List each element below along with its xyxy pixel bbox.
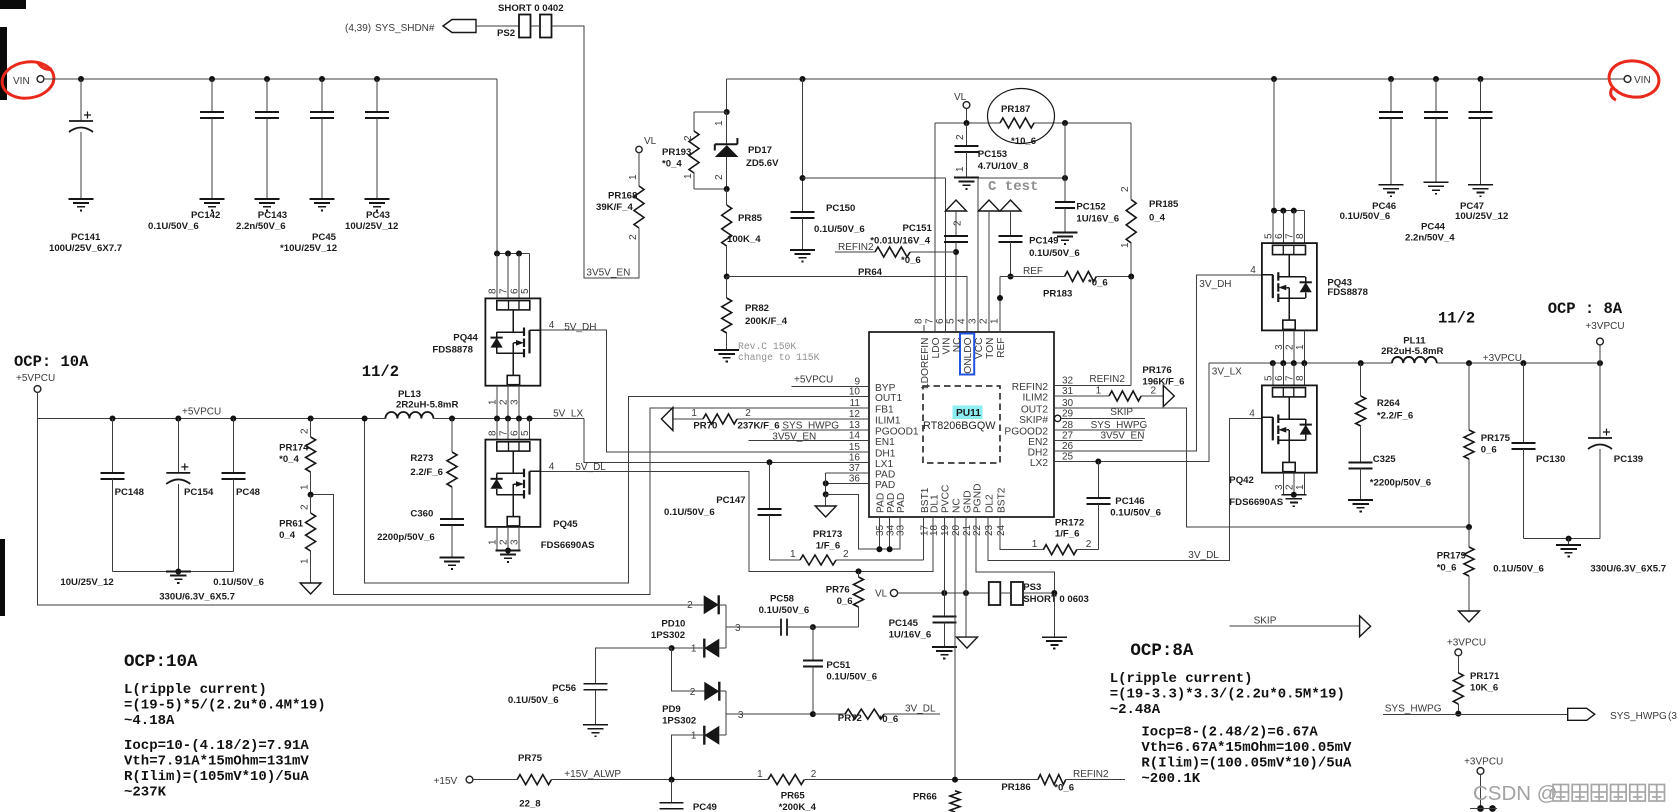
ic pin 1 REF (top) (999, 325, 1001, 332)
svg-text:NC: NC (952, 338, 963, 353)
svg-text:PAD: PAD (875, 469, 895, 480)
ground C325 (1348, 500, 1373, 511)
capacitor PC43 (374, 76, 380, 82)
diode PD9 lower (704, 726, 719, 745)
svg-text:7: 7 (925, 318, 936, 324)
svg-text:8: 8 (1295, 233, 1306, 239)
svg-text:PC151: PC151 (903, 223, 933, 234)
page border mark left upper (0, 27, 7, 100)
node R273 junction (449, 416, 455, 422)
svg-text:1: 1 (990, 318, 1001, 324)
svg-text:10U/25V_12: 10U/25V_12 (345, 221, 398, 232)
svg-text:PR64: PR64 (858, 267, 883, 278)
svg-text:+15V: +15V (434, 776, 458, 787)
capacitor PC45 (319, 76, 325, 82)
svg-text:1: 1 (691, 731, 697, 742)
wire PD10 to PD9 (672, 648, 705, 691)
capacitor PC56 (584, 684, 608, 690)
svg-text:1: 1 (790, 549, 796, 560)
svg-text:PGOOD1: PGOOD1 (875, 427, 919, 438)
svg-text:Iocp=8-(2.48/2)=6.67A: Iocp=8-(2.48/2)=6.67A (1141, 725, 1318, 741)
wire PQ43 bottom pins to 3V_LX (1282, 330, 1284, 363)
wire 5V_LX rail (433, 418, 584, 420)
svg-text:24: 24 (996, 524, 1007, 536)
svg-text:PC148: PC148 (115, 487, 145, 498)
svg-text:PC149: PC149 (1029, 236, 1058, 247)
svg-text:PR185: PR185 (1149, 199, 1179, 210)
svg-text:VIN: VIN (941, 338, 952, 355)
svg-text:ILIM1: ILIM1 (875, 416, 901, 427)
svg-text:0.1U/50V_6: 0.1U/50V_6 (1110, 508, 1161, 519)
resistor PR65 (768, 775, 804, 785)
ground PC143 (255, 199, 280, 210)
wire VCC row left segment (803, 177, 946, 179)
wire PQ42 bottom pins to ground (1282, 473, 1284, 495)
transistor PQ44 FDS8878 (485, 298, 540, 385)
node PD10 pin1 junction (669, 645, 675, 651)
svg-text:OCP: 10A: OCP: 10A (14, 353, 89, 371)
wire 3V_LX rail (1209, 362, 1392, 364)
svg-text:37: 37 (849, 463, 861, 474)
capacitor PC49 (671, 780, 673, 803)
svg-text:PC51: PC51 (826, 660, 851, 671)
svg-text:6: 6 (510, 430, 521, 436)
capacitor PC130 (1520, 360, 1526, 366)
svg-text:DH2: DH2 (1028, 448, 1049, 459)
svg-text:2: 2 (1284, 344, 1295, 350)
node caps bottom junction (175, 569, 181, 575)
node output ground junction (1566, 536, 1572, 542)
svg-text:PC48: PC48 (236, 487, 261, 498)
svg-text:2: 2 (690, 687, 696, 698)
svg-text:2: 2 (979, 318, 990, 324)
svg-text:100K_4: 100K_4 (727, 234, 761, 245)
svg-text:8: 8 (1295, 375, 1306, 381)
wire PD10 pin3 to PC58 (726, 626, 727, 628)
resistor PR185 (1126, 200, 1136, 243)
svg-text:3V_DL: 3V_DL (905, 704, 936, 715)
capacitor PC142 (209, 76, 215, 82)
svg-text:4.7U/10V_8: 4.7U/10V_8 (978, 161, 1029, 172)
ic PU11 RT8206BGQW body (869, 332, 1054, 517)
svg-text:1: 1 (488, 399, 499, 405)
resistor PR61 (310, 495, 312, 513)
wire PR173 row (770, 559, 801, 561)
svg-text:VIN: VIN (1634, 75, 1651, 86)
svg-text:OUT2: OUT2 (1021, 404, 1049, 415)
svg-text:0_4: 0_4 (1149, 213, 1166, 224)
svg-text:10: 10 (849, 387, 861, 398)
ground arrow PAD (825, 494, 827, 506)
ground PQ42 (1281, 495, 1306, 506)
wire VIN drop to PQ43 (1273, 79, 1275, 211)
svg-text:10U/25V_12: 10U/25V_12 (1455, 211, 1508, 222)
svg-text:VL: VL (644, 136, 657, 147)
ic pin 7 LDO (top) (934, 325, 936, 332)
wire DL2 pin23 to PQ42 gate (988, 418, 1263, 560)
wire PVCC pin19 vertical (943, 517, 945, 593)
wire PD9 cathode vertical (719, 690, 726, 692)
wire caps bottom bus (113, 571, 234, 573)
resistor PR176 (1109, 391, 1141, 401)
capacitor PC146 (1097, 462, 1099, 498)
svg-text:8: 8 (488, 430, 499, 436)
svg-text:REFIN2: REFIN2 (838, 242, 874, 253)
svg-text:14: 14 (849, 431, 861, 442)
capacitor PC151 (955, 211, 957, 236)
svg-text:3: 3 (510, 399, 521, 405)
svg-text:2: 2 (745, 408, 751, 419)
svg-text:EN1: EN1 (875, 437, 895, 448)
resistor PR172 (1043, 545, 1076, 555)
resistor PR193 (693, 112, 695, 131)
svg-text:PC43: PC43 (366, 210, 390, 221)
ic pin 3 VCC (top) (977, 325, 979, 332)
svg-text:+15V_ALWP: +15V_ALWP (564, 769, 621, 780)
wire PGOOD2 pin28 stub (1054, 429, 1145, 431)
svg-text:PR76: PR76 (826, 585, 850, 596)
svg-text:29: 29 (1062, 408, 1074, 419)
diode PD10 lower (704, 639, 719, 658)
svg-text:1: 1 (300, 558, 311, 564)
svg-text:7: 7 (1284, 233, 1295, 239)
svg-text:*0_6: *0_6 (1437, 563, 1457, 574)
svg-text:OCP:8A: OCP:8A (1130, 641, 1194, 661)
wire SYS_HWPG row (1383, 713, 1568, 715)
svg-text:VIN: VIN (13, 76, 30, 87)
svg-text:C325: C325 (1373, 454, 1397, 465)
wire PD9 pin3 row (726, 713, 813, 715)
watermark CSDN (1473, 782, 1558, 805)
svg-text:6: 6 (935, 318, 946, 324)
svg-text:0.1U/50V_6: 0.1U/50V_6 (664, 507, 715, 518)
capacitor PC148 (110, 416, 116, 422)
red highlight circle around left VIN (0, 59, 56, 102)
svg-text:1: 1 (1032, 539, 1038, 550)
wire +3VPCU bottom stub (1480, 774, 1482, 808)
ground arrow PR179 (1459, 611, 1480, 622)
node PVCC junction (941, 590, 947, 596)
svg-text:PS2: PS2 (497, 28, 515, 39)
svg-text:PQ42: PQ42 (1229, 475, 1254, 486)
svg-text:VCC: VCC (974, 338, 985, 360)
svg-text:25: 25 (1062, 452, 1074, 463)
svg-text:13: 13 (849, 420, 861, 431)
wire PQ43 top header (1274, 210, 1304, 212)
svg-text:PC147: PC147 (716, 495, 745, 506)
node PAD36 junction (823, 480, 829, 486)
node REF junction (1008, 274, 1014, 280)
svg-text:4: 4 (549, 320, 555, 331)
svg-text:0.1U/50V_6: 0.1U/50V_6 (759, 605, 810, 616)
svg-text:2: 2 (953, 220, 964, 226)
wire VL horizontal (935, 122, 1000, 124)
svg-text:PGND: PGND (972, 484, 983, 513)
svg-text:3: 3 (510, 539, 521, 545)
svg-text:18: 18 (929, 524, 940, 536)
svg-text:3: 3 (1274, 344, 1285, 350)
ic pin 5 NC (top) (955, 325, 957, 332)
node PD17 bottom junction (724, 186, 730, 192)
wire VL row (898, 592, 989, 594)
svg-text:1: 1 (1120, 242, 1131, 248)
node VIN rail to PQ43 (1271, 76, 1277, 82)
svg-text:PQ44: PQ44 (453, 333, 478, 344)
transistor PQ42 FDS6690AS (1262, 385, 1317, 472)
resistor PR186 (1038, 775, 1066, 785)
blue box around ONLDO pin name (960, 334, 974, 375)
svg-text:2.2n/50V_4: 2.2n/50V_4 (1405, 233, 1455, 244)
wire PAD pin34 vertical (889, 517, 891, 549)
wire +3VPCU rail (1437, 362, 1600, 364)
svg-text:5V_DL: 5V_DL (575, 462, 606, 473)
ic pin 29 active-low bubble (1054, 415, 1060, 421)
svg-text:*10U/25V_12: *10U/25V_12 (280, 243, 337, 254)
svg-text:2.2n/50V_6: 2.2n/50V_6 (236, 221, 286, 232)
arrow PR176 right (1163, 386, 1174, 407)
svg-text:C360: C360 (410, 509, 433, 520)
svg-text:3: 3 (738, 710, 744, 721)
svg-text:=(19-3.3)*3.3/(2.2u*0.5M*19): =(19-3.3)*3.3/(2.2u*0.5M*19) (1110, 687, 1345, 703)
svg-text:31: 31 (1062, 386, 1074, 397)
wire branch to PR193 top (694, 111, 727, 113)
node PAD ground junction (823, 491, 829, 497)
wire BST1 pin17 vertical (923, 517, 925, 560)
svg-text:16: 16 (849, 452, 861, 463)
wire PGND pin22 to PS3 ground (976, 517, 1054, 593)
svg-text:4: 4 (549, 462, 555, 473)
svg-text:1: 1 (1295, 484, 1306, 490)
svg-text:PAD: PAD (896, 493, 907, 513)
svg-text:5V_DH: 5V_DH (564, 322, 596, 333)
svg-text:PR82: PR82 (745, 303, 769, 314)
svg-text:+5VPCU: +5VPCU (16, 373, 55, 384)
svg-text:REFIN2: REFIN2 (1012, 382, 1049, 393)
wire LX2 pin25 to 3V_LX (1054, 363, 1209, 461)
resistor PR171 (1457, 656, 1459, 673)
svg-text:23: 23 (984, 524, 995, 536)
svg-text:PR168: PR168 (608, 191, 638, 202)
svg-text:+3VPCU: +3VPCU (1483, 353, 1522, 364)
wire PS3 to ground (1053, 593, 1055, 637)
watermark chinese glyph blocks (1553, 785, 1569, 802)
svg-text:10U/25V_12: 10U/25V_12 (60, 577, 113, 588)
wire ILIM1 pin12 (673, 418, 703, 420)
svg-text:28: 28 (1062, 420, 1074, 431)
capacitor PC141 (78, 76, 84, 82)
svg-text:L(ripple current): L(ripple current) (1110, 671, 1253, 687)
wire VCC row right segment (978, 177, 1065, 179)
svg-text:FDS6690AS: FDS6690AS (1229, 497, 1283, 508)
wire SKIP# pin29 stub (1061, 417, 1145, 419)
node VIN rail to PC150 (800, 76, 806, 82)
svg-text:0.1U/50V_6: 0.1U/50V_6 (213, 577, 264, 588)
wire DH1 pin15 to PQ44 gate (540, 330, 869, 452)
wire REFIN2 stub (835, 251, 875, 253)
inductor PL11 (1392, 357, 1437, 363)
svg-text:*0_6: *0_6 (1054, 783, 1074, 794)
wire PD9 pin1 to +15V rail (672, 735, 705, 779)
node PR66 junction (952, 777, 958, 783)
node GND junction on VL row (963, 590, 969, 596)
ground arrow PR61 (300, 583, 321, 594)
svg-text:PC49: PC49 (693, 802, 717, 812)
svg-text:~237K: ~237K (124, 785, 167, 801)
svg-text:8: 8 (488, 288, 499, 294)
svg-text:1: 1 (488, 539, 499, 545)
node R264 junction (1358, 360, 1364, 366)
wire EN1 pin14 stub (748, 440, 869, 442)
svg-text:8: 8 (914, 318, 925, 324)
svg-text:REFIN2: REFIN2 (1089, 374, 1125, 385)
svg-text:0_6: 0_6 (1481, 445, 1497, 456)
capacitor PC152 (1064, 123, 1066, 202)
ground PC141 (69, 199, 94, 210)
wire GND pin21 vertical (965, 517, 967, 637)
diode PD10 upper 1PS302 (704, 595, 719, 614)
svg-text:PD10: PD10 (661, 619, 685, 630)
ground left caps (166, 572, 191, 583)
svg-text:~4.18A: ~4.18A (124, 713, 175, 729)
wire junction to IC pin4 ONLDO (727, 277, 967, 332)
svg-text:2: 2 (499, 539, 510, 545)
wire REF net (1000, 276, 1065, 278)
svg-text:SHORT 0 0402: SHORT 0 0402 (498, 3, 564, 14)
svg-text:PQ45: PQ45 (553, 519, 578, 530)
svg-text:~200.1K: ~200.1K (1141, 771, 1200, 787)
wire PS2 to 3V5V_EN net (552, 26, 640, 278)
svg-text:6: 6 (1274, 375, 1285, 381)
node PR175 PR179 junction (1466, 524, 1472, 530)
node LX2 PC146 junction (1095, 459, 1101, 465)
svg-text:~2.48A: ~2.48A (1110, 702, 1161, 718)
svg-text:0.1U/50V_6: 0.1U/50V_6 (814, 224, 865, 235)
node REF-left junction (724, 274, 730, 280)
wire REF corner to IC pin1 REF (999, 277, 1001, 332)
wire PQ44 bottom pins (496, 386, 498, 419)
svg-text:FDS6690AS: FDS6690AS (541, 540, 595, 551)
resistor R264 (1360, 363, 1362, 396)
resistor PR70 (703, 414, 737, 424)
svg-text:SKIP: SKIP (1110, 407, 1133, 418)
wire VIN rail drop to PQ44 (496, 79, 498, 254)
svg-text:2: 2 (687, 600, 693, 611)
capacitor PC147 (769, 462, 771, 509)
svg-text:LDOREFIN: LDOREFIN (920, 338, 931, 390)
resistor PR76 (858, 571, 860, 577)
svg-text:7: 7 (1284, 375, 1295, 381)
svg-text:33: 33 (896, 524, 907, 536)
svg-text:PR75: PR75 (518, 753, 543, 764)
svg-text:CSDN @: CSDN @ (1473, 782, 1558, 805)
svg-text:+5VPCU: +5VPCU (794, 375, 833, 386)
svg-text:ONLDO: ONLDO (963, 337, 974, 373)
svg-text:0.1U/50V_6: 0.1U/50V_6 (826, 672, 877, 683)
svg-text:2: 2 (1284, 484, 1295, 490)
svg-text:5: 5 (520, 288, 531, 294)
wire DH2 pin26 to PQ43 gate (1054, 275, 1262, 451)
node PC150 wire junction (800, 175, 806, 181)
ground PQ45 (496, 551, 521, 562)
svg-text:3: 3 (735, 623, 741, 634)
wire PR76 bottom to PC58 node (813, 626, 859, 628)
resistor R273 (451, 419, 453, 453)
svg-text:PC58: PC58 (770, 594, 795, 605)
svg-text:*200K_4: *200K_4 (779, 802, 817, 812)
svg-text:*0_4: *0_4 (279, 454, 299, 465)
svg-text:1: 1 (691, 644, 697, 655)
svg-text:PC153: PC153 (978, 149, 1007, 160)
svg-text:2: 2 (683, 135, 694, 141)
svg-text:Iocp=10-(4.18/2)=7.91A: Iocp=10-(4.18/2)=7.91A (124, 738, 309, 754)
svg-text:*2.2/F_6: *2.2/F_6 (1377, 411, 1413, 422)
svg-text:PR85: PR85 (738, 213, 763, 224)
wire to IC pin3 VCC (977, 178, 979, 332)
node PR185 REF junction (1128, 274, 1134, 280)
capacitor PC149 (1010, 211, 1012, 236)
svg-text:3V_DL: 3V_DL (1188, 550, 1219, 561)
resistor PR64 (875, 247, 910, 257)
capacitor PC48 (230, 416, 236, 422)
svg-text:3V_LX: 3V_LX (1212, 367, 1242, 378)
svg-text:+3VPCU: +3VPCU (1447, 638, 1486, 649)
svg-text:SYS_SHDN#: SYS_SHDN# (375, 23, 435, 34)
svg-text:2: 2 (1120, 186, 1131, 192)
capacitor PC154 (175, 416, 181, 422)
svg-text:BST2: BST2 (996, 487, 1007, 513)
node LX1 PC147 junction (767, 459, 773, 465)
svg-text:1PS302: 1PS302 (651, 630, 685, 641)
wire PQ45 bottom pins to ground (496, 527, 498, 551)
svg-text:REF: REF (996, 338, 1007, 358)
svg-text:0.1U/50V_6: 0.1U/50V_6 (1340, 211, 1391, 222)
resistor PR183 (1065, 272, 1097, 282)
svg-text:OCP:10A: OCP:10A (124, 652, 198, 672)
svg-text:5: 5 (946, 318, 957, 324)
wire VL port to node (966, 108, 968, 123)
svg-text:PR66: PR66 (913, 792, 937, 803)
jumper PS3 (989, 582, 1001, 605)
wire PAD to bottom pads (826, 494, 900, 549)
svg-text:20: 20 (951, 524, 962, 536)
svg-text:PR171: PR171 (1470, 671, 1500, 682)
port VIN right (1624, 76, 1631, 83)
svg-text:*0.01U/16V_4: *0.01U/16V_4 (870, 236, 930, 247)
svg-text:PL13: PL13 (398, 389, 421, 400)
svg-text:+3VPCU: +3VPCU (1464, 757, 1503, 768)
node OUT1 rail junction (362, 416, 368, 422)
ic pin 8 LDOREFIN (top) (923, 325, 925, 332)
svg-text:SYS_HWPG: SYS_HWPG (1610, 711, 1667, 722)
svg-text:2: 2 (1086, 539, 1092, 550)
svg-text:PR175: PR175 (1481, 433, 1511, 444)
wire BST2 pin24 to PR172 (1000, 517, 1043, 550)
svg-text:PR186: PR186 (1001, 782, 1030, 793)
capacitor PC44 (1433, 76, 1439, 82)
svg-text:PR173: PR173 (813, 529, 842, 540)
svg-text:change to 115K: change to 115K (738, 352, 820, 363)
svg-text:PC56: PC56 (552, 683, 576, 694)
svg-text:5: 5 (1263, 375, 1274, 381)
svg-text:TON: TON (985, 338, 996, 359)
svg-text:PC152: PC152 (1076, 202, 1105, 213)
capacitor PC47 (1478, 76, 1484, 82)
svg-text:0.1U/50V_6: 0.1U/50V_6 (1029, 248, 1080, 259)
svg-text:0_6: 0_6 (837, 596, 853, 607)
node PR76 top junction (856, 568, 862, 574)
wire +5VPCU port to rail (37, 392, 39, 418)
svg-text:200K/F_4: 200K/F_4 (745, 316, 788, 327)
